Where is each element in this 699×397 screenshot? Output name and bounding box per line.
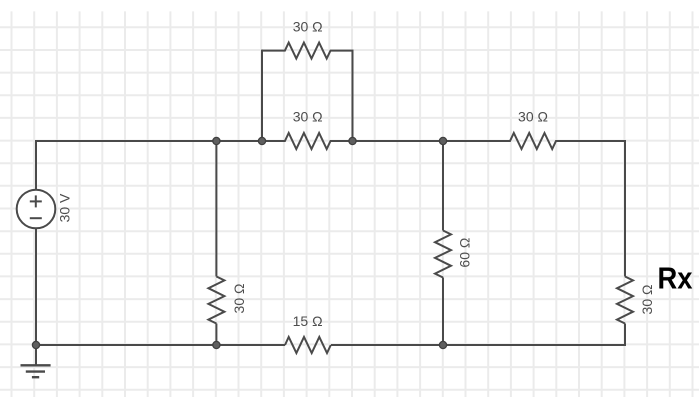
svg-text:Rx: Rx xyxy=(658,262,693,296)
node B junction xyxy=(258,137,265,144)
svg-text:30 Ω: 30 Ω xyxy=(231,284,247,314)
node F junction xyxy=(213,341,220,348)
wire right vertical lower xyxy=(624,324,626,347)
voltage source V1 30V xyxy=(17,190,56,229)
resistor Rx 30ohm xyxy=(617,277,633,324)
wire middle branch lower xyxy=(215,324,217,346)
resistor R2 30ohm middle xyxy=(262,133,353,149)
ground xyxy=(21,345,51,377)
resistor R5 30ohm top right xyxy=(443,133,625,149)
wire source bottom lead xyxy=(35,228,37,345)
node C junction xyxy=(349,137,356,144)
wire bottom left of 15ohm xyxy=(216,344,285,346)
wire right vertical upper xyxy=(624,140,626,277)
wire 60ohm branch lower xyxy=(442,278,444,346)
wire bottom right xyxy=(443,344,625,346)
svg-text:30 Ω: 30 Ω xyxy=(293,19,323,35)
wire middle branch upper xyxy=(215,141,217,277)
node G junction bottom left xyxy=(32,341,39,348)
resistor R1 30ohm top xyxy=(262,43,353,59)
node E junction xyxy=(439,341,446,348)
svg-text:30 Ω: 30 Ω xyxy=(518,108,548,124)
node A junction xyxy=(213,137,220,144)
wire bottom node E to resistor xyxy=(331,344,443,346)
wire parallel branch right vertical xyxy=(352,50,354,141)
wire source top lead xyxy=(35,140,37,190)
wire parallel branch left vertical xyxy=(261,50,263,141)
svg-text:60 Ω: 60 Ω xyxy=(456,238,472,268)
svg-text:30 Ω: 30 Ω xyxy=(639,285,655,315)
wire bottom far left xyxy=(36,344,216,346)
resistor R3 30ohm middle branch xyxy=(208,277,224,324)
svg-text:30 V: 30 V xyxy=(57,193,73,222)
wire 60ohm branch upper xyxy=(442,141,444,231)
resistor R4 15ohm bottom xyxy=(285,337,331,353)
wire node B to node D xyxy=(353,140,444,142)
wire top-left horizontal from source to node A xyxy=(36,140,262,142)
resistor R6 60ohm xyxy=(435,231,451,278)
node D junction xyxy=(439,137,446,144)
svg-text:30 Ω: 30 Ω xyxy=(293,109,323,125)
svg-text:15 Ω: 15 Ω xyxy=(293,313,323,329)
